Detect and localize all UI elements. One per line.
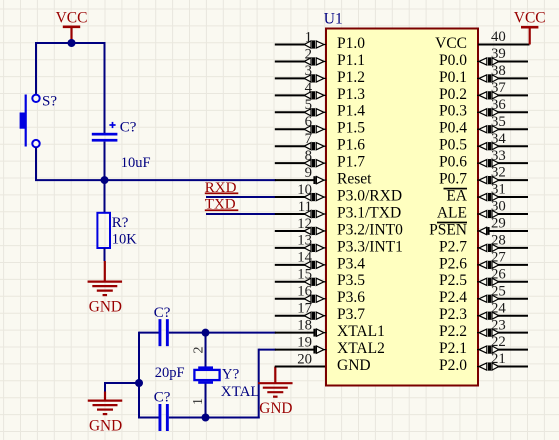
pin 32 (P0.7) [439,165,528,188]
svg-text:P1.5: P1.5 [337,120,365,137]
pin 14 (P3.4) [275,250,365,273]
pin 1 (P1.0) [275,29,365,52]
svg-text:38: 38 [491,63,506,79]
svg-text:C?: C? [154,390,171,406]
pin 8 (P1.7) [275,148,365,171]
junction under VCC [68,39,76,47]
IC U1 body [326,29,478,386]
wire XTAL2 to pin 19 [259,349,276,351]
pin 15 (P3.5) [275,267,365,290]
svg-text:P3.2/INT0: P3.2/INT0 [337,221,403,238]
svg-text:40: 40 [491,29,506,45]
wire capacitor bottom [104,142,106,181]
svg-text:P2.4: P2.4 [439,289,467,306]
svg-text:EA: EA [446,187,467,204]
svg-text:P3.4: P3.4 [337,255,365,272]
pin 19 (XTAL2) [275,334,385,357]
svg-text:ALE: ALE [437,204,467,221]
svg-text:XTAL1: XTAL1 [337,323,385,340]
svg-text:27: 27 [491,249,506,265]
svg-text:4: 4 [305,80,313,96]
svg-text:GND: GND [337,357,371,374]
capacitor C? 10uF (polarized) [92,122,118,142]
pin 5 (P1.4) [275,97,365,120]
svg-text:5: 5 [305,97,312,113]
svg-text:11: 11 [298,199,312,215]
svg-text:19: 19 [297,334,312,350]
svg-text:P3.0/RXD: P3.0/RXD [337,187,402,204]
svg-text:C?: C? [154,305,171,321]
ground GND (crystal left) [88,392,123,435]
svg-text:10uF: 10uF [121,155,151,171]
pin 30 (ALE) [437,199,528,222]
capacitor C? (top 20pF) [159,319,169,346]
svg-text:23: 23 [491,317,506,333]
svg-text:VCC: VCC [435,35,467,52]
svg-text:U1: U1 [324,11,343,28]
pin 35 (P0.4) [439,114,528,137]
pin 7 (P1.6) [275,131,365,154]
pin 36 (P0.3) [439,97,528,120]
svg-text:2: 2 [305,46,312,62]
pin 3 (P1.2) [275,63,365,86]
svg-text:P3.7: P3.7 [337,306,365,323]
svg-text:P0.3: P0.3 [439,103,467,120]
pin 23 (P2.2) [439,317,528,340]
svg-text:P0.1: P0.1 [439,69,467,86]
svg-text:C?: C? [120,119,137,135]
svg-text:Reset: Reset [337,171,372,188]
wire ground stub [105,382,139,384]
pin 16 (P3.6) [275,284,365,307]
svg-text:P2.5: P2.5 [439,272,467,289]
svg-text:GND: GND [259,400,292,417]
svg-text:P1.2: P1.2 [337,69,365,86]
svg-text:P1.3: P1.3 [337,86,365,103]
svg-text:13: 13 [297,233,312,249]
pin 31 (EA) [444,182,529,205]
ground GND (IC pin 20) [258,367,293,418]
junction left ground stub [135,379,143,387]
svg-text:P2.6: P2.6 [439,255,467,272]
svg-text:GND: GND [89,418,122,435]
svg-text:10K: 10K [112,232,138,248]
svg-text:17: 17 [297,301,312,317]
pin 2 (P1.1) [275,46,365,69]
capacitor C? (bottom 20pF) [159,404,169,431]
pin 40 (VCC) [435,29,529,52]
wire junction to resistor [104,180,106,213]
svg-text:18: 18 [297,317,312,333]
svg-text:P2.7: P2.7 [439,238,467,255]
svg-text:33: 33 [491,148,506,164]
svg-text:1: 1 [191,398,206,405]
power symbol VCC (top left) [56,9,88,43]
svg-text:P0.0: P0.0 [439,52,467,69]
pin 26 (P2.5) [439,266,528,289]
wire crystal bottom lead [205,383,207,418]
svg-text:21: 21 [491,351,506,367]
svg-text:10: 10 [297,182,312,198]
pin 9 (Reset) [275,165,372,188]
pin 21 (P2.0) [439,351,528,374]
pin 37 (P0.2) [439,80,528,103]
pin 13 (P3.3/INT1) [275,233,403,256]
pin 27 (P2.6) [439,249,528,272]
svg-text:P0.6: P0.6 [439,154,467,171]
pin 33 (P0.6) [439,148,528,171]
svg-text:37: 37 [491,80,506,96]
pin 39 (P0.0) [439,46,528,69]
pin 29 (PSEN) [429,216,528,239]
wire XTAL1 net top [139,332,160,334]
wire TXD to pin 11 [206,213,276,215]
svg-text:P1.0: P1.0 [337,35,365,52]
svg-text:Y?: Y? [222,367,240,383]
svg-text:9: 9 [305,165,312,181]
svg-text:XTAL: XTAL [221,384,260,400]
power symbol VCC (top right) [514,10,546,45]
svg-text:R?: R? [112,215,129,231]
svg-text:P0.7: P0.7 [439,171,467,188]
svg-text:8: 8 [305,148,312,164]
svg-text:VCC: VCC [514,10,546,27]
pin 24 (P2.3) [439,300,528,323]
wire resistor to ground [104,248,106,261]
svg-text:P1.4: P1.4 [337,103,365,120]
svg-text:P3.3/INT1: P3.3/INT1 [337,238,403,255]
svg-text:26: 26 [491,266,506,282]
wire RXD to pin 10 [206,196,276,198]
svg-text:P1.6: P1.6 [337,137,365,154]
pin 6 (P1.5) [275,114,365,137]
junction crystal top [202,329,210,337]
svg-text:28: 28 [491,233,506,249]
svg-text:34: 34 [491,131,506,147]
svg-text:P3.5: P3.5 [337,272,365,289]
svg-text:P0.2: P0.2 [439,86,467,103]
pin 10 (P3.0/RXD) [275,182,402,205]
svg-text:29: 29 [491,216,506,232]
wire bottom net [139,417,160,419]
resistor R? [97,213,110,248]
svg-text:15: 15 [297,267,312,283]
pin 12 (P3.2/INT0) [275,216,403,239]
svg-text:22: 22 [491,334,506,350]
pin 18 (XTAL1) [275,317,385,340]
pin 20 (GND) [275,351,371,374]
pin 38 (P0.1) [439,63,528,86]
svg-text:P0.4: P0.4 [439,120,467,137]
ground GND (below resistor) [88,261,123,316]
svg-text:12: 12 [297,216,312,232]
svg-text:6: 6 [305,114,312,130]
svg-text:25: 25 [491,283,506,299]
svg-text:P0.5: P0.5 [439,137,467,154]
svg-text:32: 32 [491,165,506,181]
wire to switch top [35,42,37,95]
svg-text:P2.0: P2.0 [439,357,467,374]
svg-text:S?: S? [42,94,57,110]
wire crystal top lead [205,333,207,367]
wire to capacitor top [104,42,106,134]
svg-text:24: 24 [491,300,506,316]
wire XTAL2 vertical [258,349,260,419]
svg-text:P2.3: P2.3 [439,306,467,323]
svg-text:7: 7 [305,131,312,147]
svg-text:P2.1: P2.1 [439,340,467,357]
junction crystal bottom [202,414,210,422]
svg-text:30: 30 [491,199,506,215]
pin 22 (P2.1) [439,334,528,357]
pin 25 (P2.4) [439,283,528,306]
wire left riser [138,332,140,419]
svg-text:P3.1/TXD: P3.1/TXD [337,204,401,221]
svg-text:14: 14 [297,250,312,266]
pin 17 (P3.7) [275,301,365,324]
svg-text:P1.7: P1.7 [337,154,365,171]
svg-text:35: 35 [491,114,506,130]
svg-text:2: 2 [192,347,207,354]
svg-text:PSEN: PSEN [429,221,467,238]
net label TXD [205,197,239,213]
wire reset net [35,179,276,181]
svg-text:XTAL2: XTAL2 [337,340,385,357]
pin 28 (P2.7) [439,233,528,256]
svg-text:P2.2: P2.2 [439,323,467,340]
crystal Y? [194,366,219,383]
svg-text:VCC: VCC [56,9,88,26]
svg-text:P1.1: P1.1 [337,52,365,69]
switch S? [20,95,40,148]
svg-text:16: 16 [297,284,312,300]
junction reset node [101,176,109,184]
svg-text:36: 36 [491,97,506,113]
pin 4 (P1.3) [275,80,365,103]
svg-text:P3.6: P3.6 [337,289,365,306]
wire VCC rail horizontal [36,42,105,44]
svg-text:1: 1 [305,29,312,45]
svg-text:20: 20 [297,351,312,367]
svg-text:39: 39 [491,46,506,62]
svg-text:GND: GND [89,299,122,316]
net label RXD [205,180,239,196]
svg-text:3: 3 [305,63,312,79]
pin 11 (P3.1/TXD) [275,199,401,222]
svg-text:31: 31 [491,182,506,198]
svg-text:20pF: 20pF [155,365,185,381]
pin 34 (P0.5) [439,131,528,154]
wire switch bottom [35,147,37,180]
